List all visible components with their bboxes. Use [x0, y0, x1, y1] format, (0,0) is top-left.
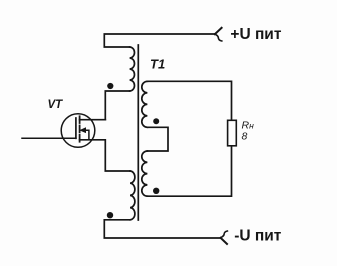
- transformer T1 core: [137, 45, 139, 220]
- wire secondary bottom: [147, 146, 231, 196]
- transistor VT channel segment drain: [79, 116, 81, 123]
- polarity dot primary winding 1: [107, 83, 113, 89]
- connector X1 +U pin: [215, 28, 222, 34]
- polarity dot secondary winding 1: [153, 118, 159, 124]
- connector X2 -U pin: [221, 238, 227, 244]
- svg-text:+U пит: +U пит: [230, 26, 281, 43]
- svg-text:T1: T1: [150, 57, 165, 72]
- transistor VT gate bar: [75, 118, 77, 138]
- transistor VT channel segment source: [79, 135, 81, 142]
- wire secondary top: [147, 81, 231, 120]
- transistor VT channel segment substrate: [79, 126, 81, 133]
- polarity dot secondary winding 2: [153, 188, 159, 194]
- wire -U supply rail: [104, 220, 221, 238]
- transistor VT body circle: [61, 114, 95, 148]
- wire drain lead: [80, 119, 106, 121]
- transformer T1 secondary winding 2: [142, 151, 148, 196]
- wire +U supply rail: [104, 34, 215, 47]
- resistor Rn body: [228, 120, 237, 146]
- polarity dot primary winding 2: [107, 212, 113, 218]
- transformer T1 secondary winding 1: [142, 81, 148, 127]
- wire source lead: [80, 140, 130, 171]
- transistor VT substrate arrow: [80, 128, 85, 133]
- svg-text:VT: VT: [48, 99, 64, 111]
- wire secondary series jog: [147, 127, 168, 151]
- svg-text:8: 8: [242, 131, 248, 143]
- wire gate lead: [22, 137, 76, 139]
- wire winding1 to drain: [105, 91, 129, 120]
- svg-text:-U пит: -U пит: [234, 227, 282, 244]
- transformer T1 primary winding 2: [130, 171, 135, 220]
- transistor VT substrate to source link: [85, 130, 89, 140]
- transformer T1 primary winding 1: [130, 47, 135, 91]
